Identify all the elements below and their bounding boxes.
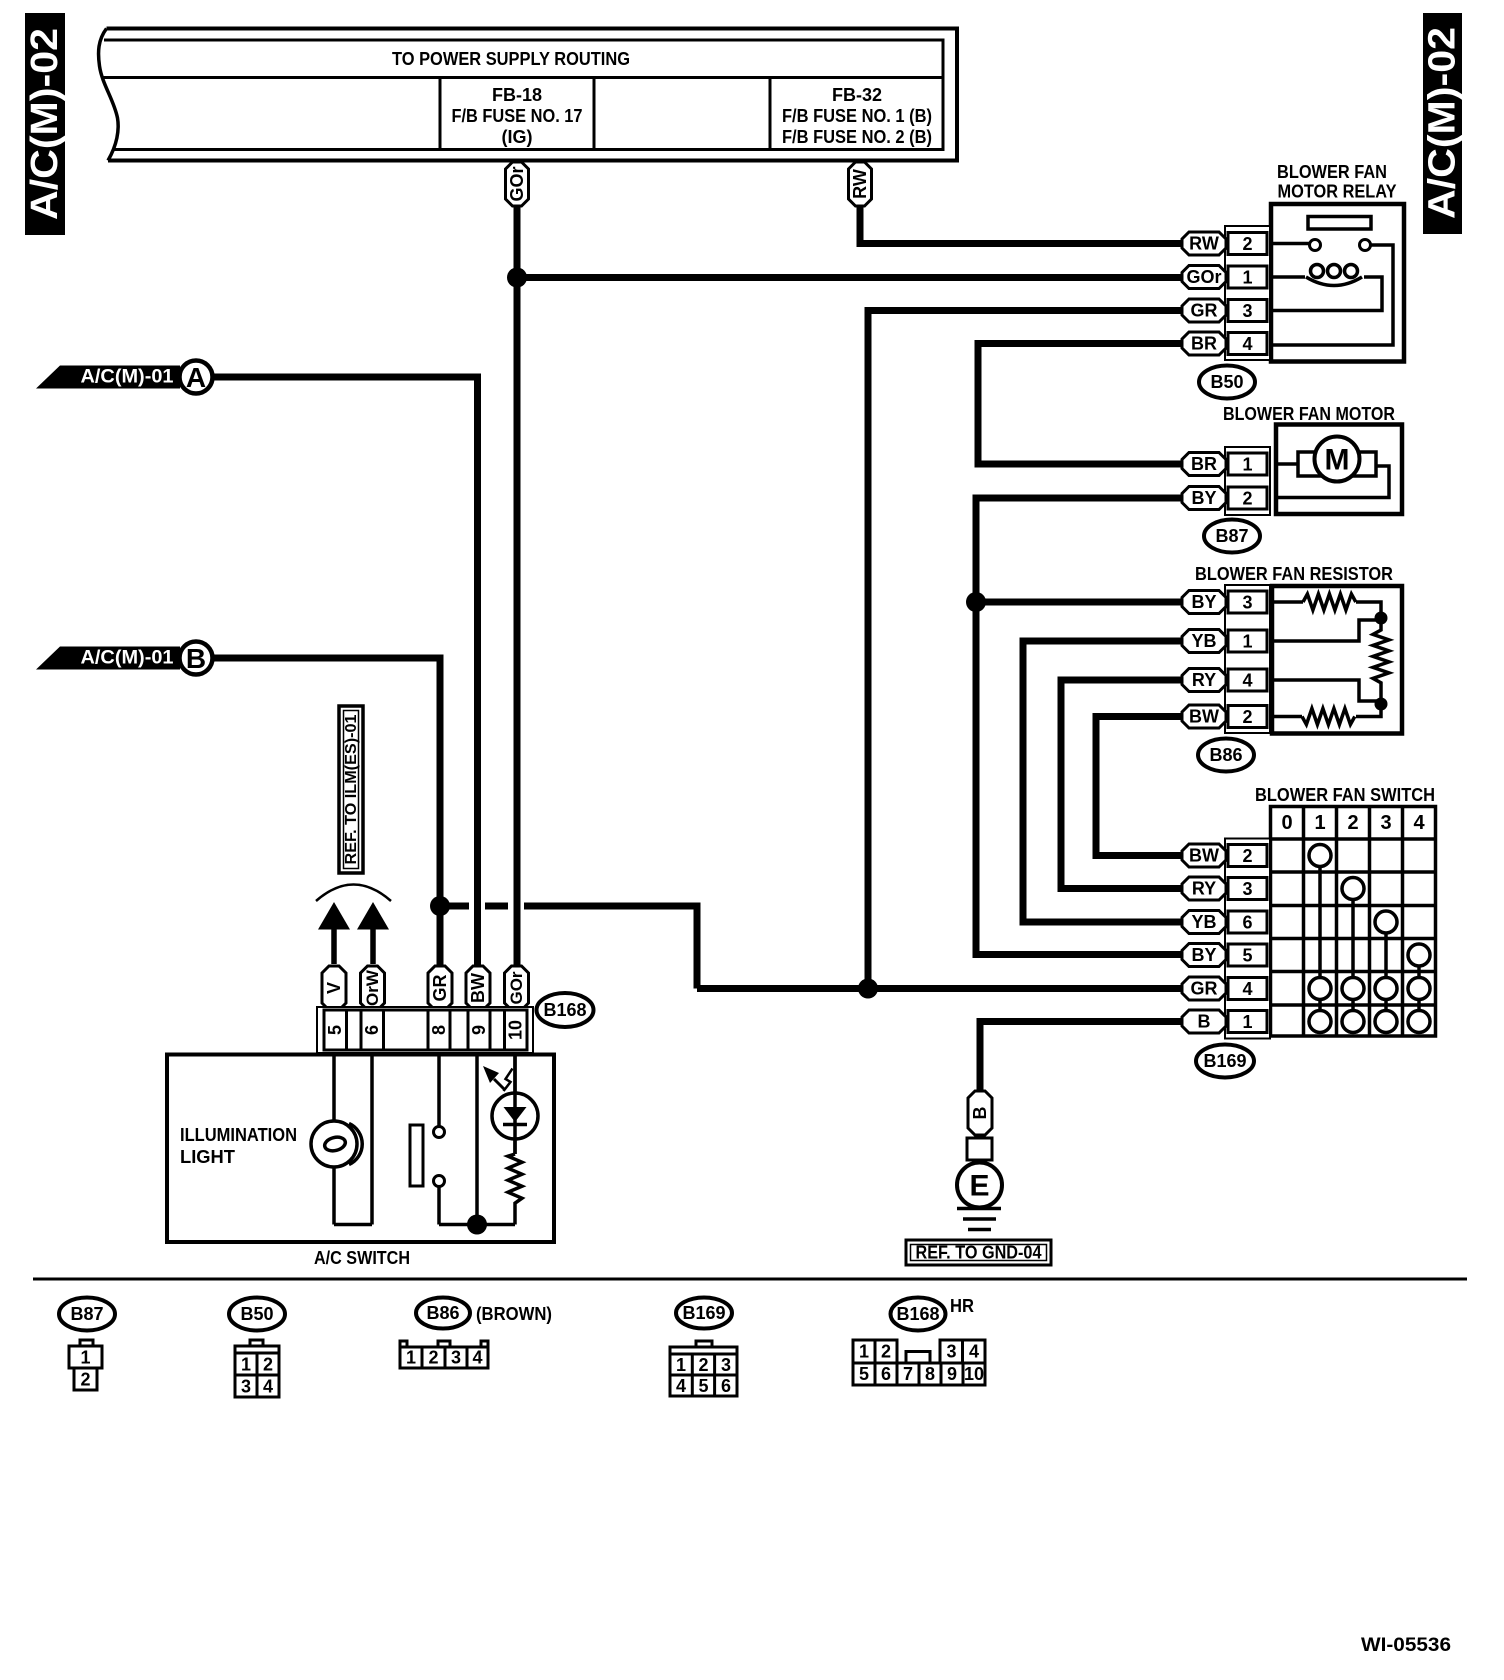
switch B169 grid: [1271, 807, 1436, 1037]
node A circle: [180, 361, 213, 394]
wire tag BY pin 3: [1182, 591, 1226, 614]
svg-text:B: B: [970, 1107, 990, 1120]
svg-text:BY: BY: [1191, 945, 1216, 965]
svg-text:3: 3: [721, 1355, 731, 1375]
relay coil wire pin 3: [1271, 277, 1382, 311]
resistor wire pin 4: [1272, 680, 1381, 701]
wire tag RW pin 2: [1182, 232, 1226, 255]
svg-text:8: 8: [925, 1364, 935, 1384]
relay pin bracket: [1225, 226, 1270, 360]
svg-text:B50: B50: [1210, 372, 1243, 392]
switch contact upper: [434, 1127, 445, 1138]
wire tag V pin 5: [322, 966, 346, 1010]
svg-text:3: 3: [1242, 301, 1252, 321]
fuse FB-18 label: [452, 85, 583, 147]
svg-text:2: 2: [1242, 707, 1252, 727]
resistor wire pin 3: [1272, 600, 1303, 604]
wire GR from junction to switch column (with hops over BW and GOr): [440, 906, 697, 989]
relay contact wire pin 4: [1271, 245, 1393, 345]
wire RY resistor pin 4 to switch pin 3: [1061, 680, 1182, 889]
relay coil: [1306, 265, 1362, 286]
svg-text:GR: GR: [1191, 979, 1218, 999]
arrow OrW to ILM: [357, 902, 389, 964]
motor brush bar: [1298, 452, 1376, 476]
connector label B87 (bottom): [59, 1298, 115, 1331]
svg-text:BLOWER FAN RESISTOR: BLOWER FAN RESISTOR: [1195, 564, 1393, 584]
switch pin 5: [1228, 944, 1267, 966]
ref to ILM(ES)-01 box: [339, 706, 363, 873]
wire BW resistor pin 2 to switch pin 2: [1096, 717, 1182, 856]
relay contact left: [1310, 240, 1321, 251]
node BY junction: [966, 592, 986, 612]
wire tag GOr pin 10: [505, 966, 529, 1010]
wire B switch pin 1 to ground: [980, 1022, 1182, 1096]
LED illumination arrow: [483, 1066, 513, 1091]
node resistor bottom junction: [1375, 698, 1388, 711]
svg-text:A/C SWITCH: A/C SWITCH: [314, 1248, 410, 1268]
svg-text:6: 6: [1242, 913, 1252, 933]
switch pin 3: [1228, 878, 1267, 900]
node B circle: [180, 642, 213, 675]
node junction in A/C switch: [467, 1215, 487, 1235]
resistor B86 box: [1272, 586, 1402, 734]
svg-text:B169: B169: [682, 1303, 725, 1323]
wire from B to B168 pin 8: [200, 658, 440, 966]
A/C switch box: [167, 1055, 554, 1243]
svg-text:F/B FUSE NO. 1 (B): F/B FUSE NO. 1 (B): [782, 106, 932, 126]
svg-text:1: 1: [1242, 1012, 1252, 1032]
motor wire pin 2: [1276, 466, 1389, 498]
svg-text:2: 2: [1242, 234, 1252, 254]
wire tag RY pin 4: [1182, 669, 1226, 692]
relay contact wire pin 2: [1271, 242, 1309, 246]
motor pin 2: [1228, 487, 1267, 509]
resistor element bottom: [1302, 709, 1355, 725]
wire tag GR pin 4: [1182, 977, 1226, 1000]
relay contact right: [1360, 240, 1371, 251]
svg-text:B87: B87: [1215, 526, 1248, 546]
relay armature bar: [1308, 217, 1371, 230]
switch pin 6: [1228, 911, 1267, 933]
wire tag OrW pin 6: [361, 966, 385, 1010]
svg-text:2: 2: [698, 1355, 708, 1375]
svg-text:F/B FUSE NO. 2 (B): F/B FUSE NO. 2 (B): [782, 127, 932, 147]
svg-text:6: 6: [881, 1364, 891, 1384]
resistor pin 3: [1228, 591, 1267, 613]
connector label B168: [537, 993, 594, 1027]
wire tag GOr pin 1: [1182, 266, 1226, 289]
svg-text:V: V: [324, 982, 344, 994]
flag A/C(M)-01 B: [36, 647, 180, 670]
wire BR relay pin 4 to motor pin 1: [978, 344, 1182, 465]
wire tag RY pin 3: [1182, 877, 1226, 900]
svg-text:3: 3: [1242, 879, 1252, 899]
wire tag RW (below FB-32): [849, 162, 872, 206]
switch pin 1: [1228, 1011, 1267, 1033]
flag A/C(M)-01 A: [36, 366, 180, 389]
svg-text:WI-05536: WI-05536: [1361, 1635, 1451, 1656]
svg-text:YB: YB: [1191, 631, 1216, 651]
relay pin 2: [1228, 233, 1267, 255]
svg-text:E: E: [969, 1170, 989, 1203]
svg-text:1: 1: [1242, 632, 1252, 652]
wire tag BR pin 1: [1182, 453, 1226, 476]
svg-text:MOTOR RELAY: MOTOR RELAY: [1278, 182, 1397, 202]
svg-text:4: 4: [1242, 334, 1252, 354]
svg-text:4: 4: [472, 1348, 482, 1368]
motor B87 box: [1276, 425, 1402, 515]
svg-text:GR: GR: [1191, 301, 1218, 321]
wire GOr from power supply down: [514, 200, 521, 966]
connector label B169 (bottom): [676, 1298, 732, 1329]
connector label B87: [1204, 520, 1260, 553]
node GOr junction: [507, 268, 527, 288]
svg-text:B50: B50: [240, 1304, 273, 1324]
svg-text:GR: GR: [430, 974, 450, 1001]
wire tag BW pin 2: [1182, 844, 1226, 867]
node GR junction at A/C switch: [430, 896, 450, 916]
resistor pin 2: [1228, 706, 1267, 728]
LED indicator: [492, 1054, 538, 1154]
svg-text:1: 1: [1242, 455, 1252, 475]
svg-text:GOr: GOr: [507, 971, 526, 1004]
resistor in A/C switch: [508, 1154, 522, 1225]
svg-text:0: 0: [1281, 812, 1292, 834]
LED wire: [513, 1054, 517, 1154]
svg-text:3: 3: [946, 1342, 956, 1362]
wire RW from power supply to relay pin 2: [860, 200, 1182, 244]
svg-text:(IG): (IG): [502, 127, 533, 147]
svg-text:FB-18: FB-18: [492, 85, 542, 105]
svg-text:6: 6: [362, 1025, 382, 1035]
svg-text:BLOWER FAN MOTOR: BLOWER FAN MOTOR: [1223, 404, 1395, 424]
node GR junction: [858, 979, 878, 999]
arrow V to ILM: [318, 902, 350, 964]
svg-text:A/C(M)-02: A/C(M)-02: [1422, 27, 1464, 219]
svg-text:5: 5: [325, 1025, 345, 1035]
illumination bulb: [311, 1121, 362, 1167]
svg-text:BLOWER FAN SWITCH: BLOWER FAN SWITCH: [1255, 785, 1435, 805]
wire tag B pin 1: [1182, 1010, 1226, 1033]
switch pin 2: [1228, 845, 1267, 867]
connector label B168 (bottom): [891, 1298, 946, 1331]
relay B50 box: [1271, 204, 1404, 362]
svg-text:BR: BR: [1191, 334, 1217, 354]
wire tag BR pin 4: [1182, 332, 1226, 355]
svg-text:10: 10: [964, 1364, 984, 1384]
svg-text:4: 4: [1413, 812, 1425, 834]
svg-text:M: M: [1325, 444, 1350, 477]
svg-text:A/C(M)-02: A/C(M)-02: [24, 28, 66, 220]
svg-text:REF. TO GND-04: REF. TO GND-04: [916, 1243, 1042, 1263]
svg-text:B86: B86: [1209, 745, 1242, 765]
svg-text:2: 2: [881, 1342, 891, 1362]
svg-text:3: 3: [451, 1348, 461, 1368]
svg-text:B: B: [1198, 1012, 1211, 1032]
svg-text:A: A: [186, 362, 206, 393]
svg-text:ILLUMINATION: ILLUMINATION: [180, 1125, 297, 1145]
svg-text:2: 2: [428, 1348, 438, 1368]
svg-text:RY: RY: [1192, 879, 1216, 899]
connector view B86: [400, 1341, 488, 1368]
node resistor top junction: [1375, 612, 1388, 625]
svg-text:4: 4: [1242, 671, 1252, 691]
svg-text:B168: B168: [543, 1000, 586, 1020]
switch pin 4: [1228, 978, 1267, 1000]
switch contact circles: [1309, 845, 1430, 1033]
illumination bulb circuit wires: [334, 1054, 372, 1225]
connector B168 strip bracket: [317, 1007, 533, 1053]
connector view B169: [670, 1341, 737, 1396]
ground connector block: [967, 1138, 992, 1160]
wire GR horizontal to switch: [697, 985, 1182, 992]
svg-text:7: 7: [903, 1364, 913, 1384]
motor M symbol: [1315, 437, 1360, 482]
svg-text:TO POWER SUPPLY ROUTING: TO POWER SUPPLY ROUTING: [392, 49, 630, 69]
svg-text:4: 4: [1242, 979, 1252, 999]
svg-text:2: 2: [1242, 846, 1252, 866]
illumination light label: [180, 1125, 297, 1167]
connector label B86 (bottom): [416, 1298, 470, 1329]
connector B168 strip cells: [324, 1010, 527, 1050]
svg-text:3: 3: [241, 1377, 251, 1397]
svg-text:BLOWER FAN: BLOWER FAN: [1277, 162, 1387, 182]
blower fan motor relay title: [1277, 162, 1397, 202]
wire tag B to ground: [968, 1091, 992, 1135]
svg-text:BY: BY: [1191, 488, 1216, 508]
svg-text:6: 6: [721, 1376, 731, 1396]
ground symbol bars: [957, 1209, 1001, 1230]
wire from A to B168 pin 9: [200, 377, 478, 966]
svg-text:2: 2: [1347, 812, 1358, 834]
wire tag BW pin 2: [1182, 705, 1226, 728]
ground E circle: [957, 1160, 1002, 1208]
relay pin 1: [1228, 266, 1267, 288]
wire tag GR pin 3: [1182, 299, 1226, 322]
svg-text:1: 1: [80, 1348, 90, 1368]
svg-text:5: 5: [1242, 946, 1252, 966]
switch contact lower: [434, 1176, 445, 1187]
resistor wire pin 1: [1272, 620, 1381, 641]
separator line: [33, 1278, 1467, 1281]
switch actuator bar: [410, 1125, 423, 1186]
svg-text:BW: BW: [1189, 846, 1219, 866]
svg-text:F/B FUSE NO. 17: F/B FUSE NO. 17: [452, 106, 583, 126]
resistor pin 4: [1228, 669, 1267, 691]
svg-text:1: 1: [241, 1355, 251, 1375]
connector label B86: [1198, 739, 1254, 772]
ref to GND-04 box: [906, 1240, 1051, 1265]
wire tag BY pin 2: [1182, 487, 1226, 510]
wire GR relay pin 3 to blower fan switch pin 4: [868, 311, 1182, 989]
svg-text:8: 8: [429, 1025, 449, 1035]
svg-text:(BROWN): (BROWN): [476, 1304, 552, 1324]
svg-text:LIGHT: LIGHT: [180, 1147, 235, 1167]
svg-text:1: 1: [1314, 812, 1325, 834]
wire tag GR pin 8: [428, 966, 452, 1010]
connector label B50 (bottom): [229, 1298, 285, 1331]
svg-text:A/C(M)-01: A/C(M)-01: [81, 367, 174, 388]
svg-text:GOr: GOr: [1186, 267, 1221, 287]
switch contact column lines: [1320, 867, 1419, 1011]
right page banner A/C(M)-02: [1422, 13, 1464, 234]
svg-text:1: 1: [676, 1355, 686, 1375]
left page banner A/C(M)-02: [24, 13, 66, 235]
svg-text:RW: RW: [1189, 234, 1219, 254]
svg-text:RW: RW: [850, 169, 870, 199]
wire YB resistor pin 1 to switch pin 6: [1023, 641, 1182, 922]
svg-text:B: B: [186, 643, 206, 674]
connector view B87: [69, 1340, 102, 1390]
svg-text:OrW: OrW: [363, 969, 382, 1006]
wire tag BW pin 9: [466, 966, 490, 1010]
resistor element top: [1303, 594, 1356, 610]
svg-text:10: 10: [506, 1020, 526, 1040]
relay pin 3: [1228, 300, 1267, 322]
svg-text:9: 9: [947, 1364, 957, 1384]
svg-text:BY: BY: [1191, 592, 1216, 612]
svg-text:REF. TO ILM(ES)-01: REF. TO ILM(ES)-01: [343, 714, 360, 864]
arc under ILM box: [316, 885, 391, 902]
motor pin bracket: [1225, 447, 1270, 515]
svg-text:GOr: GOr: [507, 166, 527, 201]
wire tag YB pin 6: [1182, 911, 1226, 934]
resistor element middle (vertical): [1373, 618, 1389, 704]
svg-text:1: 1: [1242, 268, 1252, 288]
svg-text:A/C(M)-01: A/C(M)-01: [81, 648, 174, 669]
switch position labels 0-4: [1281, 812, 1425, 834]
wire GOr junction to relay pin 1: [517, 274, 1182, 281]
connector view B50: [235, 1340, 279, 1397]
switch pin bracket: [1225, 839, 1270, 1039]
wire tag BY pin 5: [1182, 944, 1226, 967]
svg-text:3: 3: [1380, 812, 1391, 834]
svg-text:B168: B168: [896, 1304, 939, 1324]
svg-text:BW: BW: [1189, 707, 1219, 727]
motor wire pin 1: [1276, 462, 1298, 466]
relay pin 4: [1228, 333, 1267, 355]
svg-text:RY: RY: [1192, 670, 1216, 690]
svg-text:4: 4: [676, 1376, 686, 1396]
svg-text:4: 4: [969, 1342, 979, 1362]
svg-text:5: 5: [698, 1376, 708, 1396]
resistor pin bracket: [1225, 585, 1270, 733]
connector label B50: [1199, 366, 1255, 399]
connector view B168: [853, 1340, 985, 1385]
svg-text:9: 9: [469, 1025, 489, 1035]
power supply routing box: [99, 29, 957, 161]
svg-text:1: 1: [859, 1342, 869, 1362]
svg-text:5: 5: [859, 1364, 869, 1384]
svg-text:2: 2: [1242, 489, 1252, 509]
svg-text:B169: B169: [1203, 1051, 1246, 1071]
svg-text:BW: BW: [468, 973, 488, 1003]
relay coil wire pin 1: [1271, 275, 1305, 279]
svg-text:2: 2: [263, 1355, 273, 1375]
svg-text:1: 1: [406, 1348, 416, 1368]
motor pin 1: [1228, 453, 1267, 475]
svg-text:YB: YB: [1191, 912, 1216, 932]
wire tag GOr (below FB-18): [506, 162, 529, 206]
A/C switch contact wires: [439, 1054, 515, 1225]
svg-text:2: 2: [80, 1370, 90, 1390]
wire BY motor pin 2 to resistor pin 3 and switch pin 5: [976, 498, 1182, 955]
svg-text:BR: BR: [1191, 454, 1217, 474]
fuse FB-32 label: [782, 85, 932, 147]
wire tag YB pin 1: [1182, 630, 1226, 653]
svg-text:4: 4: [263, 1377, 273, 1397]
resistor pin 1: [1228, 630, 1267, 652]
connector label B169: [1196, 1045, 1254, 1078]
resistor wire pin 2: [1272, 715, 1302, 719]
svg-text:FB-32: FB-32: [832, 85, 882, 105]
svg-text:B86: B86: [426, 1303, 459, 1323]
svg-text:3: 3: [1242, 593, 1252, 613]
svg-text:HR: HR: [950, 1296, 974, 1316]
svg-text:B87: B87: [70, 1304, 103, 1324]
